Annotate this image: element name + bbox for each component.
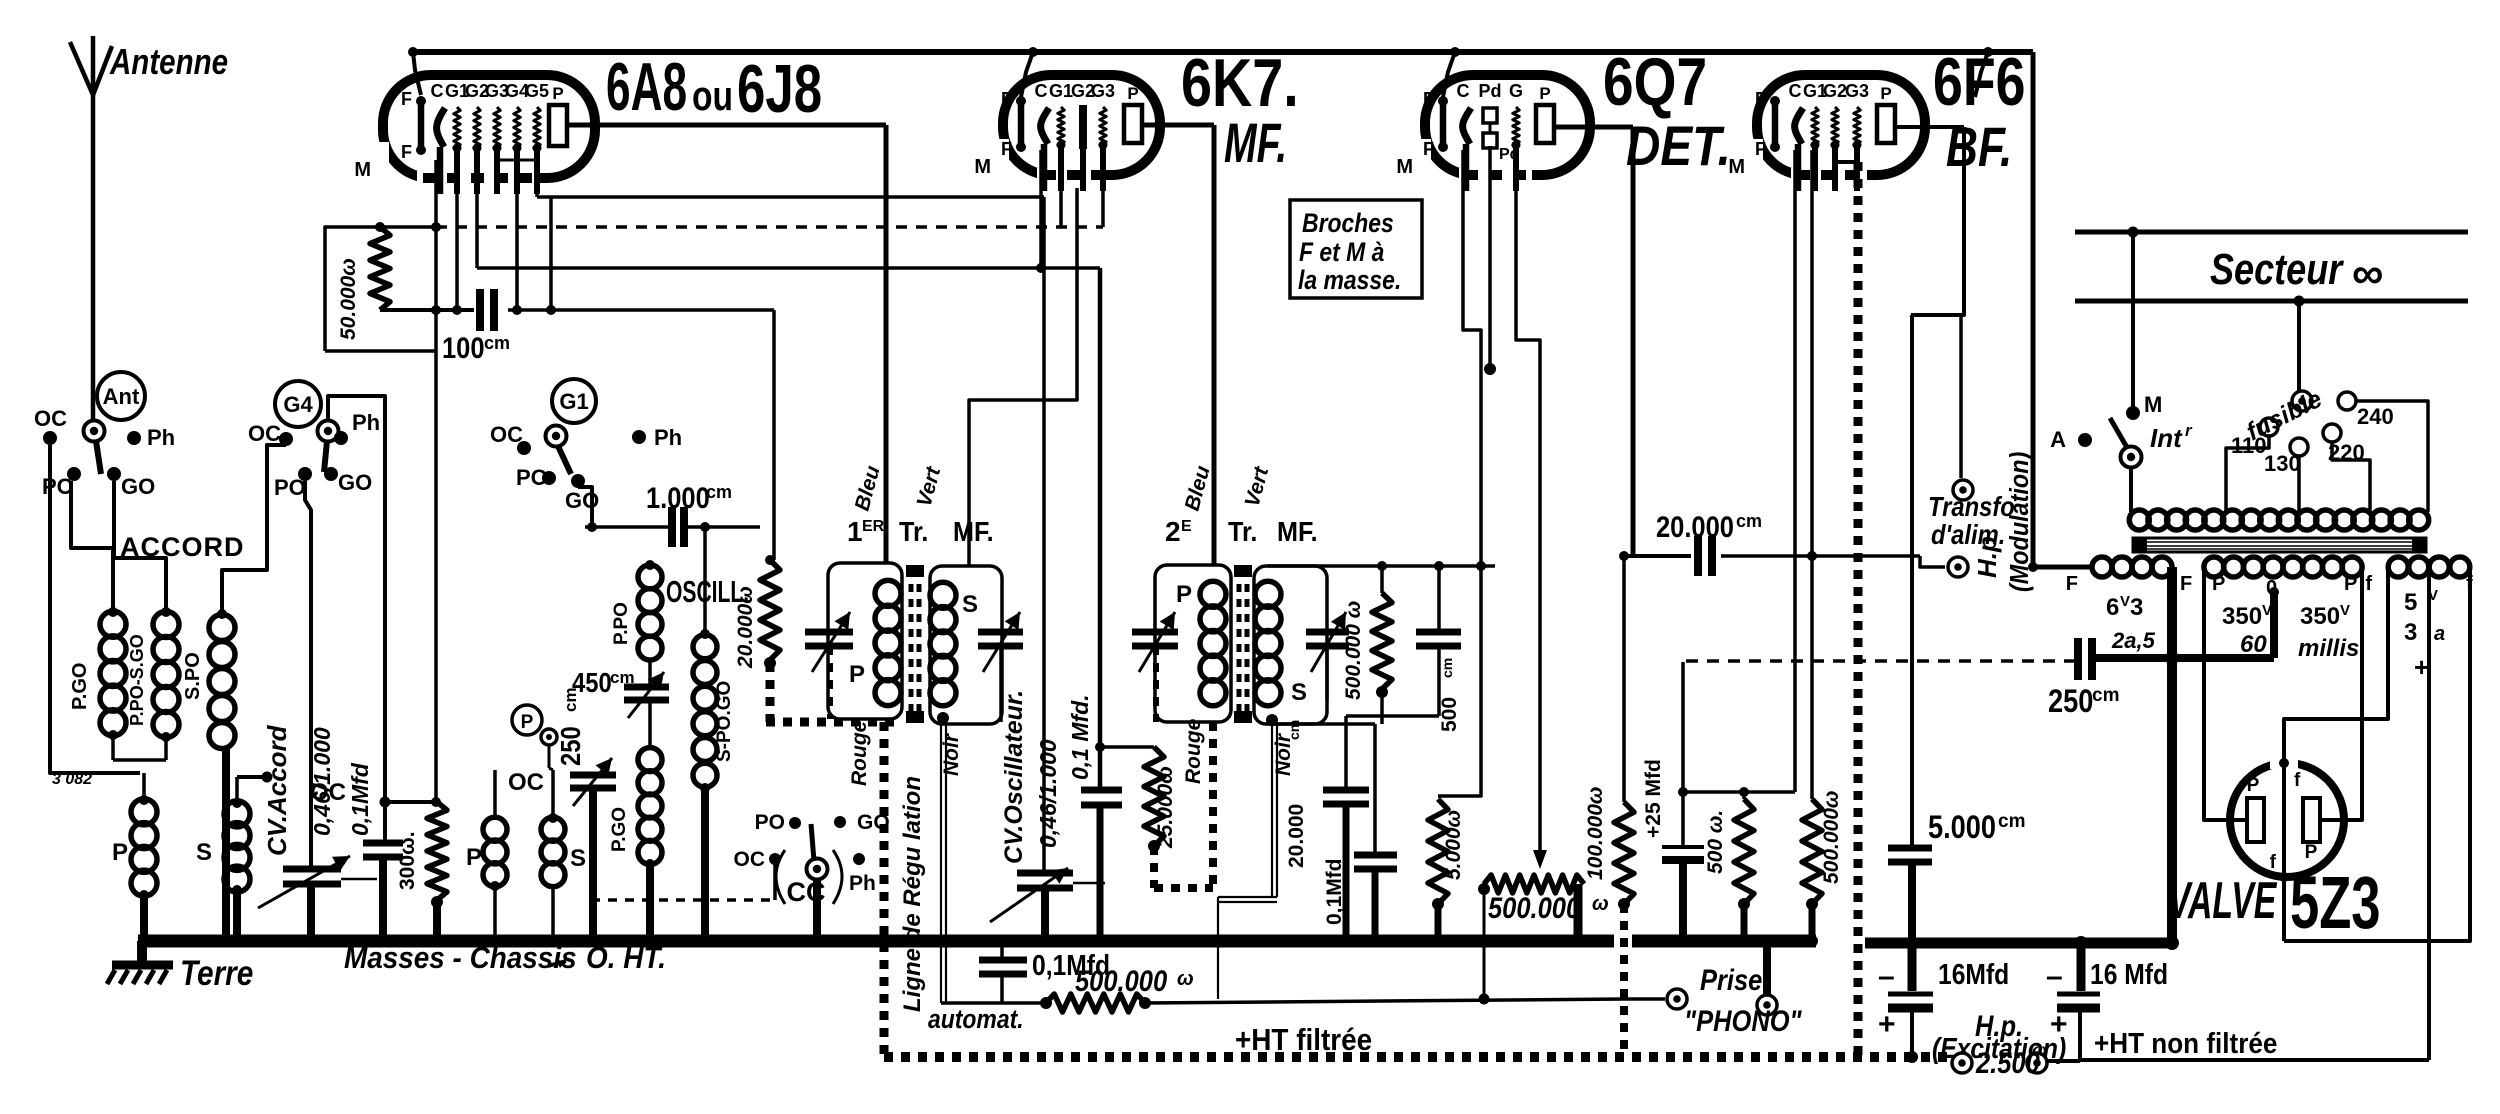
svg-text:F: F — [1755, 139, 1766, 159]
svg-text:130: 130 — [2264, 451, 2301, 476]
svg-text:2.500: 2.500 — [1975, 1046, 2040, 1079]
svg-text:G: G — [1509, 81, 1523, 101]
svg-text:OSCILL.: OSCILL. — [666, 574, 749, 609]
label Rouge 2 — [1182, 718, 1205, 784]
svg-text:P: P — [2247, 775, 2260, 796]
resistor 500000 avc — [941, 964, 1625, 1012]
svg-text:F: F — [2180, 573, 2192, 595]
svg-text:ou: ou — [692, 74, 733, 120]
svg-text:cm: cm — [1439, 658, 1455, 678]
wire 6F6 cathode — [1683, 150, 1795, 797]
svg-text:C: C — [1035, 81, 1048, 101]
svg-text:2: 2 — [1165, 516, 1181, 547]
svg-text:110: 110 — [2231, 433, 2267, 458]
svg-text:F: F — [1423, 139, 1434, 159]
wire GO drop1 — [114, 481, 166, 612]
tube V2 6K7 — [974, 75, 1160, 191]
svg-text:cm: cm — [2092, 685, 2119, 706]
wire CV accord column — [305, 481, 311, 869]
svg-text:5.000ω: 5.000ω — [1442, 810, 1465, 880]
coil S osc — [541, 770, 586, 887]
svg-text:S.PO: S.PO — [182, 652, 204, 700]
svg-text:Antenne: Antenne — [109, 41, 228, 81]
svg-text:1.000: 1.000 — [646, 481, 710, 514]
wire HT right to plate — [2320, 567, 2362, 820]
wire T2 S top line — [1268, 561, 1495, 571]
coil T2 P — [1176, 581, 1226, 706]
resistor 5000 — [1428, 799, 1465, 947]
transformer T1 primary box — [828, 563, 902, 719]
svg-text:250: 250 — [554, 726, 586, 766]
label Bleu 1 — [851, 463, 885, 513]
switch SW4 CC — [734, 811, 890, 947]
wire G1 rail — [452, 152, 462, 315]
svg-text:O. HT.: O. HT. — [586, 941, 666, 976]
svg-text:S: S — [962, 591, 978, 618]
wire HT non filtree — [2080, 567, 2429, 1060]
resistor 25000 — [1100, 747, 1177, 852]
wire G4 drop — [512, 158, 522, 315]
svg-text:5: 5 — [2404, 589, 2417, 616]
svg-text:P: P — [2305, 842, 2318, 863]
svg-text:BF.: BF. — [1946, 115, 2012, 178]
ground Terre — [107, 941, 253, 993]
label Masses-Chassis — [344, 941, 666, 976]
svg-text:Masses - Chassis: Masses - Chassis — [344, 941, 577, 976]
svg-text:CV.Oscillateur.: CV.Oscillateur. — [1000, 690, 1028, 864]
svg-text:ω: ω — [1592, 893, 1609, 915]
resistor 500000 grid — [1802, 791, 1843, 947]
svg-text:MF.: MF. — [953, 516, 994, 548]
wire plate 6A8 to T1 — [567, 125, 886, 563]
capacitor +25Mfd — [1642, 662, 1704, 947]
variable capacitor CV.Oscillateur — [990, 690, 1105, 947]
svg-text:G2: G2 — [1823, 81, 1847, 101]
tube V5 5Z3 rectifier — [2230, 755, 2344, 882]
capacitor 20000cm coupling — [1624, 510, 1945, 576]
wire rail R3 screen — [477, 150, 1100, 273]
svg-text:6: 6 — [2106, 594, 2119, 621]
label Hp modulation — [1972, 452, 2034, 592]
wire G4 feed — [328, 396, 391, 843]
svg-text:6Q7: 6Q7 — [1603, 45, 1707, 121]
coil P.PO osc — [611, 560, 662, 660]
terminal Hp excitation — [1932, 1009, 2080, 1079]
wire Noir double 2 — [1218, 724, 1277, 999]
svg-text:P.PO: P.PO — [611, 602, 632, 645]
wire G3-G5 tie — [497, 152, 537, 160]
svg-text:350: 350 — [2222, 603, 2262, 630]
svg-text:–: – — [1878, 960, 1895, 993]
variable capacitor T1 primary — [805, 612, 853, 719]
wire G5 jog — [537, 152, 556, 315]
label 6K7 MF — [1181, 46, 1299, 175]
variable capacitor CV.Accord — [258, 724, 377, 947]
svg-text:V: V — [2120, 593, 2130, 610]
transformer power primary — [2129, 510, 2428, 530]
svg-text:P: P — [112, 839, 128, 866]
svg-text:cm: cm — [1286, 720, 1302, 740]
svg-text:MF.: MF. — [1277, 516, 1318, 548]
svg-text:M: M — [1396, 156, 1413, 178]
svg-text:M: M — [1728, 156, 1745, 178]
wire 6F6 plate — [1895, 127, 1964, 478]
label OC antenna — [310, 779, 346, 806]
svg-text:P: P — [1880, 84, 1891, 103]
wire 5V3 left f — [2284, 567, 2388, 763]
svg-text:3: 3 — [2404, 619, 2417, 646]
svg-text:OC: OC — [734, 848, 766, 871]
coil T1 S — [930, 582, 978, 724]
label 1er Tr MF — [847, 516, 994, 548]
coil T2 S — [1255, 581, 1307, 726]
wire 6Q7 plate — [1554, 127, 1633, 556]
svg-text:3: 3 — [2130, 594, 2143, 621]
label Noir 1 — [940, 732, 963, 776]
wire plate 6K7 to T2 — [1142, 125, 1214, 565]
svg-text:P.GO: P.GO — [609, 807, 630, 852]
svg-text:0,1Mfd: 0,1Mfd — [347, 762, 373, 836]
svg-text:A: A — [2050, 427, 2066, 452]
HT filtree bus — [884, 1023, 1952, 1063]
wire heater dashed — [1686, 659, 2076, 663]
svg-text:Noir: Noir — [940, 732, 963, 776]
label Ligne de Regulation — [899, 776, 1024, 1034]
svg-text:P: P — [2344, 573, 2357, 595]
svg-text:S-PO.GO: S-PO.GO — [714, 681, 735, 762]
svg-text:M: M — [354, 159, 371, 181]
switch SW2 G4 — [248, 381, 380, 500]
svg-text:F: F — [1423, 89, 1434, 109]
svg-text:PO: PO — [516, 465, 548, 490]
coil P.GO osc — [609, 748, 662, 947]
svg-text:cm: cm — [1998, 811, 2025, 832]
svg-text:+: + — [2414, 652, 2429, 682]
svg-text:Rouge: Rouge — [848, 720, 871, 786]
svg-text:C: C — [431, 81, 444, 101]
svg-text:16 Mfd: 16 Mfd — [2090, 958, 2168, 990]
label VALVE 5Z3 — [2168, 861, 2381, 944]
coil P.GO — [69, 607, 126, 740]
svg-text:350: 350 — [2300, 603, 2340, 630]
svg-text:Vert: Vert — [1241, 464, 1274, 510]
svg-text:C: C — [1789, 81, 1802, 101]
svg-text:Ph: Ph — [654, 425, 682, 450]
resistor 100000 — [1584, 551, 1634, 910]
wire S bottom to bus — [231, 885, 243, 947]
svg-text:ACCORD: ACCORD — [120, 532, 245, 562]
svg-text:100.000ω: 100.000ω — [1584, 787, 1607, 880]
wire S.PO to bus — [220, 749, 232, 947]
resistor 500000 diode load — [1342, 566, 1392, 724]
wire G4-OC col — [222, 445, 286, 614]
switch interrupteur — [2050, 232, 2193, 512]
wire checkered 100000 bottom — [1620, 904, 1628, 1057]
svg-text:60: 60 — [2240, 631, 2267, 658]
capacitor 0.1Mfd avc — [979, 935, 1110, 1003]
coil P.PO-S.GO — [127, 607, 179, 742]
svg-text:Ph: Ph — [352, 410, 380, 435]
wire coil bottoms — [113, 735, 166, 760]
transformer T1 secondary box — [930, 566, 1002, 724]
wire 6Q7 diode lead — [1484, 146, 1496, 375]
svg-text:ER: ER — [862, 518, 885, 535]
transformer winding HT — [2204, 557, 2362, 662]
svg-text:500.000ω: 500.000ω — [1820, 791, 1843, 884]
coil S antenna — [196, 777, 250, 892]
wire HT left to plate — [2204, 567, 2247, 820]
svg-text:6K7.: 6K7. — [1181, 46, 1299, 121]
svg-text:cm: cm — [1736, 511, 1762, 531]
svg-text:Secteur: Secteur — [2210, 245, 2344, 294]
svg-text:G5: G5 — [525, 81, 549, 101]
svg-text:500: 500 — [1438, 697, 1461, 732]
capacitor 20000cm det — [1285, 716, 1369, 947]
wire filament top bus — [408, 47, 2092, 567]
wire 6V3 right thick — [2167, 567, 2177, 941]
terminal Hp modulation upper — [1953, 480, 1973, 500]
prise phono — [1625, 947, 1802, 1037]
wire 6K7 cathode — [1095, 268, 1105, 788]
svg-text:+25 Mfd: +25 Mfd — [1642, 759, 1665, 838]
svg-text:0,46/1.000: 0,46/1.000 — [309, 727, 335, 836]
capacitor 0.1Mfd det — [1323, 724, 1397, 947]
svg-text:Tr.: Tr. — [899, 516, 928, 548]
svg-text:f: f — [2270, 852, 2277, 873]
svg-text:automat.: automat. — [928, 1004, 1024, 1034]
svg-text:25.000ω: 25.000ω — [1154, 766, 1177, 849]
svg-text:250: 250 — [2048, 684, 2093, 720]
svg-text:GO: GO — [565, 488, 599, 513]
wire rail R2 avc dashed — [436, 152, 1103, 227]
svg-text:G1: G1 — [1049, 81, 1073, 101]
antenna — [70, 36, 228, 95]
svg-text:millis: millis — [2298, 635, 2359, 662]
svg-text:50.000ω: 50.000ω — [337, 258, 360, 340]
svg-text:Bleu: Bleu — [1181, 463, 1215, 513]
svg-text:6A8: 6A8 — [606, 50, 687, 126]
svg-text:PO: PO — [755, 811, 785, 834]
svg-text:Ph: Ph — [849, 872, 876, 895]
svg-text:3 082: 3 082 — [52, 771, 92, 788]
svg-text:450: 450 — [572, 666, 612, 698]
svg-text:Bleu: Bleu — [851, 463, 885, 513]
svg-text:f: f — [2294, 770, 2301, 791]
wire PO drop1 — [71, 481, 113, 612]
svg-text:F et M à: F et M à — [1299, 237, 1384, 267]
wire S top hook — [237, 772, 273, 783]
svg-text:S: S — [1291, 679, 1307, 706]
transformer T2 core — [1234, 565, 1252, 723]
svg-text:6J8: 6J8 — [737, 51, 822, 127]
svg-text:0,1 Mfd.: 0,1 Mfd. — [1067, 694, 1093, 780]
label Noir 2 — [1272, 732, 1295, 776]
svg-text:5.000: 5.000 — [1928, 810, 1996, 846]
wire P bottom to bus — [138, 890, 150, 947]
capacitor 500cm — [1416, 566, 1461, 732]
svg-text:GO: GO — [338, 470, 372, 495]
svg-text:G3: G3 — [1845, 81, 1869, 101]
wire osc coil bottoms — [490, 886, 558, 946]
note box Broches F et M a la masse — [1290, 200, 1422, 298]
resistor 50000 — [325, 222, 435, 351]
svg-text:M: M — [974, 156, 991, 178]
svg-text:F: F — [1755, 89, 1766, 109]
svg-text:ω: ω — [1177, 968, 1194, 990]
label ACCORD — [120, 532, 245, 562]
svg-text:r: r — [2185, 421, 2193, 440]
variable capacitor 250cm osc — [554, 687, 616, 947]
svg-text:P: P — [1539, 84, 1550, 103]
svg-text:OC: OC — [34, 406, 67, 431]
wire 5V3 right f — [2284, 567, 2470, 941]
svg-text:DET.: DET. — [1626, 115, 1731, 177]
svg-text:P: P — [849, 661, 865, 688]
svg-text:OC: OC — [490, 422, 523, 447]
svg-text:a: a — [2434, 623, 2445, 645]
svg-text:Prise: Prise — [1700, 963, 1762, 996]
terminal Hp modulation lower — [1948, 557, 1968, 577]
wire rail R1 osc grid — [537, 197, 1044, 873]
svg-text:F: F — [2066, 573, 2078, 595]
svg-text:5Z3: 5Z3 — [2290, 861, 2381, 944]
wire secteur lines — [2075, 227, 2468, 307]
wire 6Q7 cathode — [1438, 150, 1481, 796]
svg-text:F: F — [1001, 139, 1012, 159]
resistor 20000 screen — [734, 560, 780, 669]
chassis bus — [138, 935, 1816, 948]
label 6Q7 DET — [1603, 45, 1731, 178]
svg-text:la masse.: la masse. — [1298, 265, 1401, 295]
tube V3 6Q7 — [1396, 75, 1590, 191]
svg-text:G1: G1 — [559, 389, 588, 414]
svg-text:E: E — [1181, 518, 1192, 535]
wire OC frame left — [50, 445, 140, 788]
svg-text:VALVE: VALVE — [2168, 872, 2278, 930]
svg-text:P: P — [521, 712, 534, 733]
svg-text:MF.: MF. — [1224, 112, 1287, 175]
label 2e Tr MF — [1165, 516, 1318, 548]
coil S.PO — [182, 609, 235, 749]
svg-text:0,46/1.000: 0,46/1.000 — [1035, 739, 1061, 848]
fuse and voltage taps — [2226, 301, 2428, 512]
capacitor 1000cm — [585, 481, 760, 634]
label Secteur — [2210, 245, 2383, 298]
svg-text:16Mfd: 16Mfd — [1938, 958, 2009, 990]
coil T1 P — [849, 580, 901, 705]
resistor 500 cathode — [1704, 792, 1754, 947]
coil P antenna — [112, 773, 157, 896]
svg-text:d'alim.: d'alim. — [1931, 518, 2005, 550]
label Bleu 2 — [1181, 463, 1215, 513]
label Transfo d'alim — [1928, 490, 2015, 550]
transformer power core — [2133, 538, 2426, 552]
label OC osc — [508, 769, 544, 796]
switch SW3 G1 — [490, 379, 682, 513]
svg-text:P: P — [1176, 581, 1192, 608]
svg-text:M: M — [2144, 392, 2162, 417]
svg-text:S: S — [570, 845, 586, 872]
svg-text:"PHONO": "PHONO" — [1684, 1004, 1802, 1037]
variable capacitor T2 secondary — [1306, 612, 1349, 700]
transformer T1 core — [906, 565, 924, 723]
wire 6Q7 grid — [1516, 150, 1547, 869]
label Vert 2 — [1241, 464, 1274, 510]
label 6A8 ou 6J8 — [606, 50, 822, 127]
label Rouge 1 — [848, 720, 871, 786]
wire osc dashes — [591, 862, 775, 900]
variable capacitor T2 primary — [1132, 612, 1178, 722]
wire cathode 6A8 — [431, 160, 441, 807]
svg-text:1: 1 — [847, 516, 863, 547]
tube V1 6A8 — [354, 75, 595, 194]
svg-text:+HT filtrée: +HT filtrée — [1235, 1023, 1372, 1058]
variable capacitor T1 secondary — [978, 612, 1023, 722]
svg-text:+: + — [1878, 1008, 1896, 1041]
variable capacitor 450cm — [572, 660, 669, 748]
svg-text:Rouge: Rouge — [1182, 718, 1205, 784]
svg-text:G4: G4 — [283, 392, 313, 417]
svg-text:P: P — [552, 84, 563, 103]
capacitor 0.1Mfd 6K7 — [1081, 790, 1122, 947]
svg-text:cm: cm — [484, 333, 510, 353]
label OSCILL — [666, 574, 749, 609]
svg-text:300ω.: 300ω. — [396, 831, 419, 890]
resistor 300ohm — [396, 802, 447, 947]
coil P osc — [466, 770, 507, 891]
svg-text:∞: ∞ — [2352, 249, 2383, 298]
svg-text:F: F — [401, 142, 412, 162]
switch SW1 Ant — [34, 372, 175, 499]
wire filter node thick — [1865, 936, 2179, 950]
capacitor 250cm — [2028, 562, 2119, 720]
svg-text:V: V — [2340, 602, 2350, 619]
svg-text:Tr.: Tr. — [1228, 516, 1257, 548]
transformer winding 5V3 — [2365, 557, 2473, 682]
wire HT center tap — [2096, 587, 2279, 665]
label Vert 1 — [913, 464, 946, 510]
wire rail R4 to 20000 — [765, 310, 775, 565]
potentiometer 500000 volume — [1478, 875, 1609, 1005]
transformer T2 secondary box — [1254, 566, 1327, 724]
svg-text:Ant: Ant — [103, 384, 140, 409]
svg-text:F: F — [1001, 89, 1012, 109]
svg-text:2a,5: 2a,5 — [2111, 628, 2156, 653]
svg-text:ω: ω — [2032, 1040, 2047, 1060]
svg-text:G3: G3 — [1091, 81, 1115, 101]
svg-text:500 ω.: 500 ω. — [1704, 810, 1727, 874]
transformer winding 6V3 — [2066, 557, 2192, 653]
capacitor 100cm — [325, 289, 774, 364]
wire screen checkered — [1835, 152, 1858, 1057]
svg-text:Vert: Vert — [913, 464, 946, 510]
svg-text:0,1Mfd: 0,1Mfd — [1323, 858, 1346, 925]
svg-text:S: S — [196, 839, 212, 866]
svg-text:Terre: Terre — [180, 954, 253, 993]
transformer T2 primary box — [1155, 565, 1231, 722]
wire checkered 25000 bottom — [1154, 846, 1213, 888]
svg-text:F: F — [401, 89, 412, 109]
capacitor 16Mfd 1 — [1878, 943, 2009, 1057]
svg-text:PO: PO — [274, 475, 306, 500]
svg-text:20.000: 20.000 — [1285, 804, 1308, 868]
svg-text:P: P — [2212, 573, 2225, 595]
terminal P pickup — [512, 705, 557, 770]
coil S-PO.GO — [693, 629, 735, 947]
svg-text:Ph: Ph — [147, 425, 175, 450]
svg-text:cm: cm — [706, 482, 732, 502]
svg-text:GO: GO — [121, 474, 155, 499]
